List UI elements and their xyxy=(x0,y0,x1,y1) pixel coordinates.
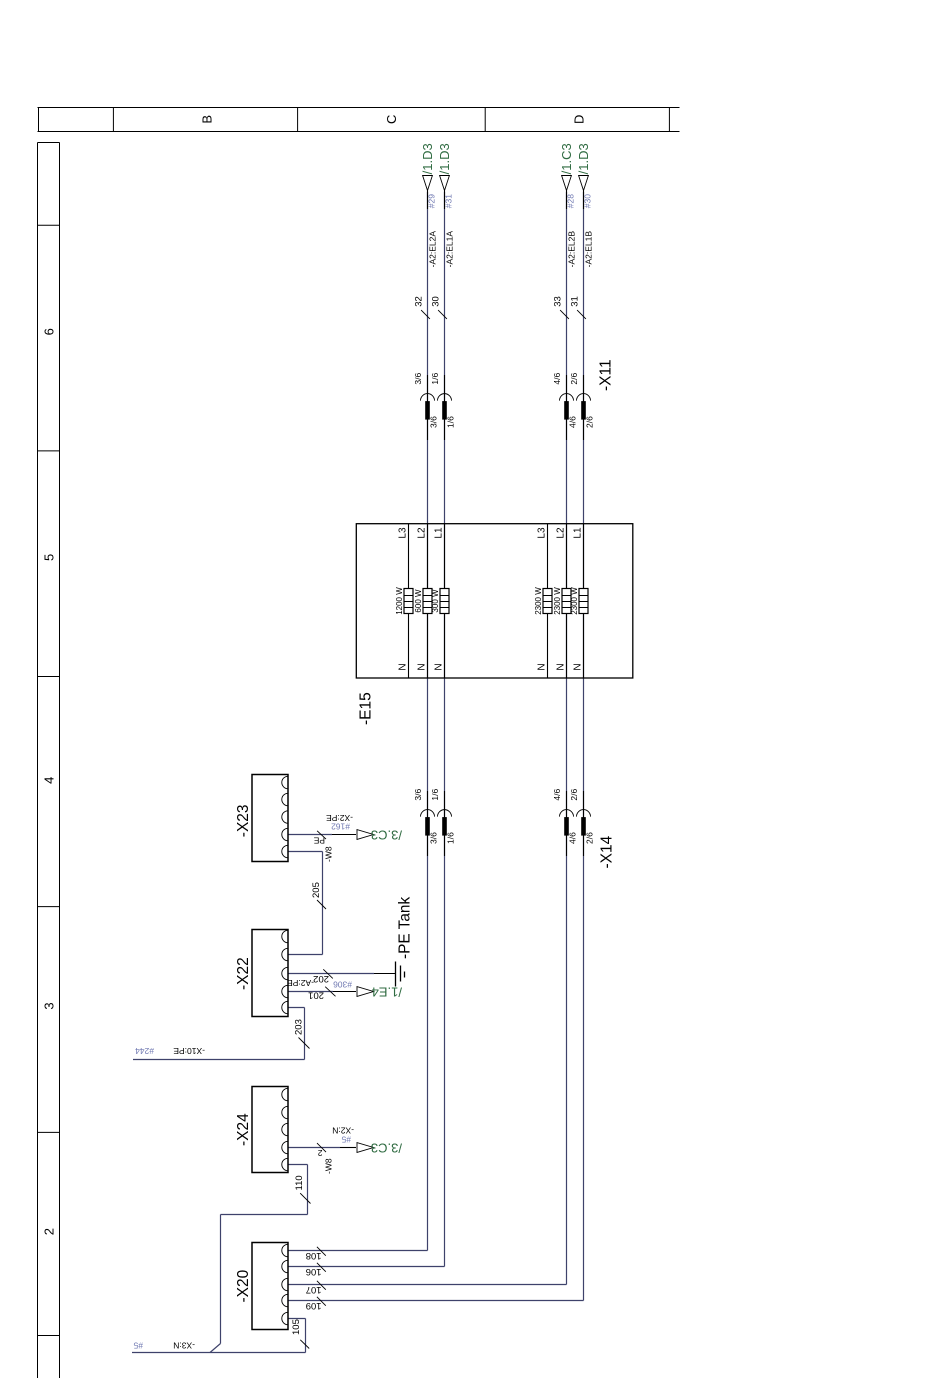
wire number slash 201 xyxy=(325,987,335,997)
wire 203 to -X22 pin5 xyxy=(304,1008,306,1060)
wire number slash 31 xyxy=(577,310,586,319)
svg-text:-X11: -X11 xyxy=(598,359,615,391)
wire number slash 107 xyxy=(317,1281,326,1290)
svg-text:N: N xyxy=(573,663,584,670)
svg-text:2/6: 2/6 xyxy=(585,832,595,844)
socket pin of -X22 xyxy=(282,1001,288,1013)
svg-text:3/6: 3/6 xyxy=(413,373,423,385)
svg-text:N: N xyxy=(417,663,428,670)
off-page arrow /1.C3 wire 33 xyxy=(566,191,568,210)
heating element L1 2300 W xyxy=(583,524,585,678)
wire PE drop from -X23 pin4 xyxy=(288,834,332,836)
socket pin of -X22 xyxy=(282,967,288,979)
connector -X20 xyxy=(252,1243,288,1330)
off-page arrow /3.C3 (X23 PE) xyxy=(357,830,374,840)
svg-text:L3: L3 xyxy=(398,527,409,539)
svg-text:109: 109 xyxy=(306,1300,322,1311)
wire D horizontal run from -X20 to sheet-1 arrow xyxy=(583,192,585,1301)
svg-text:-X3:N: -X3:N xyxy=(173,1341,195,1351)
svg-text:#306: #306 xyxy=(333,980,352,990)
resistor block 1200 W xyxy=(404,589,413,614)
svg-text:#162: #162 xyxy=(331,822,350,832)
wire 110 run to -X24 pin5 xyxy=(220,1215,222,1344)
connector -X24 xyxy=(252,1087,288,1173)
wire black tail to /1.E4 arrow (X22) xyxy=(333,991,356,993)
svg-text:-E15: -E15 xyxy=(358,692,375,725)
wire 105 from -X20 pin5 xyxy=(288,1318,306,1320)
svg-text:L2: L2 xyxy=(556,527,567,539)
svg-text:N: N xyxy=(556,663,567,670)
off-page arrow /3.C3 (X24 N) xyxy=(357,1143,374,1153)
svg-text:4/6: 4/6 xyxy=(568,416,578,428)
svg-text:2/6: 2/6 xyxy=(585,416,595,428)
socket pin of -X24 xyxy=(282,1123,288,1135)
net -X10:PE vertical bus xyxy=(133,1059,305,1061)
svg-text:3/6: 3/6 xyxy=(413,789,423,801)
terminal -X14 pin 3/6 xyxy=(427,791,429,856)
svg-text:3/6: 3/6 xyxy=(429,416,439,428)
socket pin of -X20 xyxy=(282,1260,288,1272)
wire D vertical drop from -X20 pin xyxy=(288,1300,584,1302)
svg-text:-W8: -W8 xyxy=(324,1158,334,1174)
svg-text:-PE Tank: -PE Tank xyxy=(397,897,414,959)
terminal -X11 pin 4/6 xyxy=(566,375,568,440)
socket pin of -X23 xyxy=(282,828,288,840)
svg-text:2: 2 xyxy=(318,1148,323,1158)
connector -X22 xyxy=(252,930,288,1017)
wire number slash 202 xyxy=(323,969,333,978)
svg-text:-X24: -X24 xyxy=(235,1113,252,1146)
svg-text:/1.E4: /1.E4 xyxy=(372,985,402,1000)
svg-text:31: 31 xyxy=(570,296,581,307)
svg-text:2/6: 2/6 xyxy=(569,789,579,801)
wire number slash 203 xyxy=(299,1038,310,1049)
socket pin of -X22 xyxy=(282,985,288,997)
wire number slash 105 xyxy=(300,1340,309,1349)
off-page arrow /1.E4 (X22 -A2:PE) xyxy=(357,987,374,997)
wire number slash 108 xyxy=(317,1247,326,1256)
svg-text:B: B xyxy=(200,115,215,124)
svg-text:/1.C3: /1.C3 xyxy=(559,143,574,174)
svg-text:201: 201 xyxy=(308,990,324,1001)
socket pin of -X23 xyxy=(282,845,288,857)
svg-text:202: 202 xyxy=(313,973,329,984)
socket pin of -X24 xyxy=(282,1106,288,1118)
wire number slash 110 xyxy=(300,1193,310,1203)
svg-text:33: 33 xyxy=(553,296,564,307)
net -X3:N vertical bus xyxy=(132,1352,306,1354)
wire black tail to /3.C3 arrow (X24) xyxy=(340,1147,356,1149)
wire B horizontal run from -X20 to sheet-1 arrow xyxy=(444,192,446,1267)
page column-number strip (top border) xyxy=(38,143,60,1379)
svg-text:108: 108 xyxy=(306,1250,322,1261)
svg-text:1/6: 1/6 xyxy=(430,789,440,801)
svg-text:#244: #244 xyxy=(135,1046,154,1056)
wire A vertical drop from -X20 pin xyxy=(288,1250,428,1252)
svg-text:3/6: 3/6 xyxy=(429,832,439,844)
off-page arrow /1.D3 wire 32 xyxy=(427,191,429,210)
wire black tail to /3.C3 arrow (X23) xyxy=(332,834,356,836)
connector -X23 xyxy=(252,775,288,862)
svg-text:D: D xyxy=(572,115,587,124)
wire -X3:N diagonal jog xyxy=(210,1344,221,1353)
socket pin of -X20 xyxy=(282,1312,288,1324)
ground -PE Tank xyxy=(396,962,405,987)
off-page arrow /1.D3 wire 31 xyxy=(583,191,585,210)
socket pin of -X23 xyxy=(282,776,288,788)
terminal -X11 pin 3/6 xyxy=(427,375,429,440)
svg-text:-A2:PE: -A2:PE xyxy=(287,978,314,988)
wire number slash 33 xyxy=(560,310,569,319)
wire number slash 106 xyxy=(317,1263,326,1272)
svg-text:N: N xyxy=(434,663,445,670)
svg-text:2/6: 2/6 xyxy=(569,373,579,385)
heating element L2 2300 W xyxy=(566,524,568,678)
svg-text:-X2:PE: -X2:PE xyxy=(326,813,353,823)
terminal -X11 pin 2/6 xyxy=(583,375,585,440)
wire 202 drop from -X22 pin3 to PE Tank xyxy=(288,973,374,975)
svg-text:205: 205 xyxy=(311,882,322,898)
wire black tail to PE Tank ground xyxy=(374,973,396,975)
svg-text:-X20: -X20 xyxy=(235,1269,252,1302)
page row-letter strip (right border) xyxy=(38,108,680,132)
socket pin of -X23 xyxy=(282,793,288,805)
svg-text:-A2:EL1B: -A2:EL1B xyxy=(583,231,593,268)
svg-text:-X22: -X22 xyxy=(235,957,252,990)
svg-text:30: 30 xyxy=(431,296,442,307)
cable slash -W8 (X24) xyxy=(317,1143,326,1152)
svg-text:L1: L1 xyxy=(573,527,584,539)
svg-text:/1.D3: /1.D3 xyxy=(420,143,435,174)
svg-text:106: 106 xyxy=(306,1266,322,1277)
off-page arrow /1.D3 wire 30 xyxy=(444,191,446,210)
socket pin of -X24 xyxy=(282,1141,288,1153)
svg-text:C: C xyxy=(384,115,399,124)
socket pin of -X24 xyxy=(282,1158,288,1170)
svg-text:6: 6 xyxy=(42,328,57,335)
svg-text:4/6: 4/6 xyxy=(568,832,578,844)
socket pin of -X20 xyxy=(282,1278,288,1290)
svg-text:5: 5 xyxy=(42,554,57,561)
svg-text:#5: #5 xyxy=(133,1341,143,1351)
svg-text:-X14: -X14 xyxy=(599,835,616,868)
svg-text:/3.C3: /3.C3 xyxy=(371,1141,402,1156)
wire number slash 30 xyxy=(438,310,447,319)
heating element L2 600 W xyxy=(427,524,429,678)
svg-text:#28: #28 xyxy=(565,194,575,208)
svg-text:1200 W: 1200 W xyxy=(395,587,404,615)
svg-text:#5: #5 xyxy=(341,1135,351,1145)
svg-text:/1.D3: /1.D3 xyxy=(437,143,452,174)
svg-text:32: 32 xyxy=(414,296,425,307)
resistor block 2300 W xyxy=(579,589,588,614)
resistor block 2300 W xyxy=(562,589,571,614)
resistor block 600 W xyxy=(423,589,432,614)
wire number slash 109 xyxy=(317,1297,326,1306)
svg-text:L1: L1 xyxy=(434,527,445,539)
svg-text:1/6: 1/6 xyxy=(446,416,456,428)
resistor block 2300 W xyxy=(543,589,552,614)
svg-text:203: 203 xyxy=(294,1019,305,1035)
terminal -X14 pin 1/6 xyxy=(444,791,446,856)
svg-text:#29: #29 xyxy=(426,194,436,208)
terminal -X14 pin 4/6 xyxy=(566,791,568,856)
svg-text:2300 W: 2300 W xyxy=(534,587,543,615)
svg-text:2300 W: 2300 W xyxy=(570,587,579,615)
wire C vertical drop from -X20 pin xyxy=(288,1284,567,1286)
svg-text:2: 2 xyxy=(42,1228,57,1235)
socket pin of -X22 xyxy=(282,948,288,960)
svg-text:300 W: 300 W xyxy=(431,589,440,613)
svg-text:-X10:PE: -X10:PE xyxy=(173,1046,205,1056)
socket pin of -X24 xyxy=(282,1088,288,1100)
wire B vertical drop from -X20 pin xyxy=(288,1266,445,1268)
svg-text:#30: #30 xyxy=(582,194,592,208)
svg-text:4: 4 xyxy=(42,777,57,784)
svg-text:-A2:EL2B: -A2:EL2B xyxy=(566,231,576,268)
heating element L3 2300 W xyxy=(547,524,549,678)
wire number slash 32 xyxy=(421,310,430,319)
svg-text:1/6: 1/6 xyxy=(446,832,456,844)
svg-text:#31: #31 xyxy=(443,194,453,208)
svg-text:4/6: 4/6 xyxy=(552,373,562,385)
socket pin of -X20 xyxy=(282,1294,288,1306)
svg-text:/3.C3: /3.C3 xyxy=(371,828,402,843)
wire number slash 205 xyxy=(317,900,326,909)
svg-text:-W8: -W8 xyxy=(324,846,334,862)
wire 2 drop from -X24 pin4 to /3.C3 xyxy=(288,1147,340,1149)
wire -A2:PE drop from -X22 pin4 to /1.E4 xyxy=(288,991,333,993)
svg-text:N: N xyxy=(537,663,548,670)
wire 205 from -X23 pin5 to -X22 pin2 xyxy=(288,851,323,853)
svg-text:L2: L2 xyxy=(417,527,428,539)
svg-text:/1.D3: /1.D3 xyxy=(576,143,591,174)
svg-text:110: 110 xyxy=(294,1175,305,1190)
svg-text:L3: L3 xyxy=(537,527,548,539)
svg-text:3: 3 xyxy=(42,1002,57,1009)
socket pin of -X20 xyxy=(282,1244,288,1256)
svg-text:107: 107 xyxy=(306,1284,322,1295)
svg-text:105: 105 xyxy=(291,1319,302,1335)
terminal -X11 pin 1/6 xyxy=(444,375,446,440)
svg-text:N: N xyxy=(398,663,409,670)
svg-text:-A2:EL1A: -A2:EL1A xyxy=(444,231,454,268)
svg-text:-X23: -X23 xyxy=(235,804,252,837)
svg-text:4/6: 4/6 xyxy=(552,789,562,801)
terminal -X14 pin 2/6 xyxy=(583,791,585,856)
wire C horizontal run from -X20 to sheet-1 arrow xyxy=(566,192,568,1285)
heating element L1 300 W xyxy=(444,524,446,678)
wire A horizontal run from -X20 to sheet-1 arrow xyxy=(427,192,429,1251)
cable slash -W8 (X23) xyxy=(317,831,326,839)
svg-text:2300 W: 2300 W xyxy=(553,587,562,615)
svg-text:1/6: 1/6 xyxy=(430,373,440,385)
svg-text:-A2:EL2A: -A2:EL2A xyxy=(427,231,437,268)
svg-text:600 W: 600 W xyxy=(414,589,423,613)
socket pin of -X23 xyxy=(282,811,288,823)
resistor block 300 W xyxy=(440,589,449,614)
svg-text:-X2:N: -X2:N xyxy=(332,1126,354,1136)
heating element L3 1200 W xyxy=(408,524,410,678)
socket pin of -X22 xyxy=(282,930,288,942)
heater box -E15 xyxy=(356,524,633,678)
